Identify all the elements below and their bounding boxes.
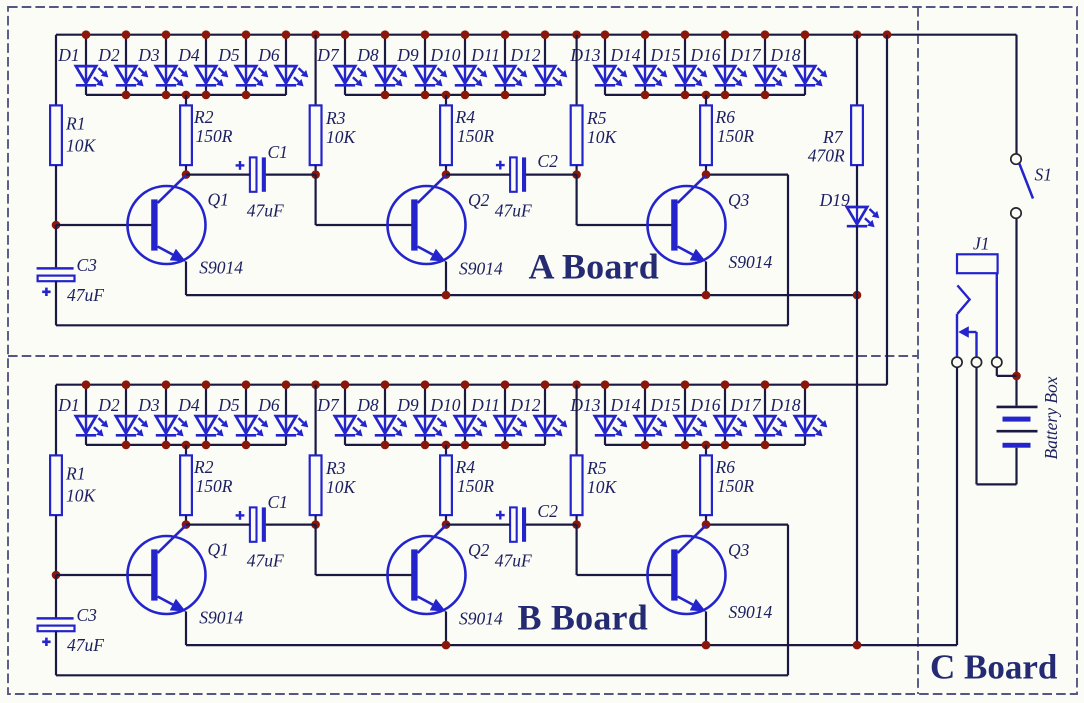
- LED D15 (A): [675, 66, 708, 86]
- svg-text:D12: D12: [509, 395, 540, 415]
- junction: top rail x=685 (A): [681, 30, 690, 39]
- transistor Q2 (A): [388, 175, 466, 264]
- junction: top rail x=765 (A): [761, 30, 770, 39]
- wire: R5 to top rail (A): [575, 35, 577, 106]
- svg-text:A Board: A Board: [529, 247, 659, 287]
- transistor Q1 (A): [128, 175, 206, 264]
- wire: D9 anode/cathode drop (B): [424, 385, 426, 445]
- wire: D7 anode/cathode drop (B): [344, 385, 346, 445]
- LED D3 (B): [156, 416, 189, 436]
- junction: top rail x=206 (B): [202, 380, 211, 389]
- svg-text:D11: D11: [470, 45, 500, 65]
- wire: R1 to base node (A): [55, 165, 57, 225]
- junction: cathode rail x=166 (A): [162, 91, 171, 100]
- junction: top rail x=805 (A): [801, 30, 810, 39]
- junction: R3 coupling node (A): [311, 170, 320, 179]
- junction: cathode rail x=645 (B): [641, 441, 650, 450]
- junction: Q2 emitter (B): [442, 641, 451, 650]
- junction: top rail x=685 (B): [681, 380, 690, 389]
- wire: emitter/ground line (B): [186, 644, 957, 646]
- LED D7 (A): [335, 66, 368, 86]
- LED D9 (A): [415, 66, 448, 86]
- svg-text:D15: D15: [649, 45, 680, 65]
- LED D2 (A): [116, 66, 149, 86]
- wire: D8 anode/cathode drop (B): [384, 385, 386, 445]
- wire: D2 anode/cathode drop (B): [125, 385, 127, 445]
- wire: R7 to D19: [856, 165, 858, 207]
- resistor R5 (A): [571, 105, 583, 165]
- svg-text:R2: R2: [193, 457, 214, 477]
- jack J1 terminal 2: [971, 357, 981, 367]
- wire: emitter/ground line (A): [186, 294, 857, 296]
- junction: cathode rail x=385 (A): [381, 91, 390, 100]
- junction: cathode rail x=685 (B): [681, 441, 690, 450]
- wire: D5 anode/cathode drop (B): [245, 385, 247, 445]
- svg-text:47uF: 47uF: [67, 635, 104, 655]
- wire: D6 anode/cathode drop (A): [285, 35, 287, 95]
- wire: R4 top stub (B): [445, 445, 447, 456]
- junction: cathode rail x=465 (B): [461, 441, 470, 450]
- junction: top rail x=246 (B): [242, 380, 251, 389]
- wire: D7 anode/cathode drop (A): [344, 35, 346, 95]
- junction: cathode rail x=505 (B): [501, 441, 510, 450]
- svg-text:47uF: 47uF: [247, 551, 284, 571]
- svg-text:D18: D18: [769, 395, 800, 415]
- wire: Q3 emitter drop (A): [705, 262, 707, 296]
- junction: Q3 collector node (A): [702, 170, 711, 179]
- svg-text:R1: R1: [65, 114, 85, 134]
- transistor Q3 (B): [648, 525, 726, 614]
- junction: top rail x=345 (A): [341, 30, 350, 39]
- junction: cathode rail x=706 (B): [702, 441, 711, 450]
- switch S1: [1011, 154, 1021, 164]
- jack J1 terminal 1: [952, 357, 962, 367]
- wire: R5 to Q3 base (B): [577, 525, 672, 575]
- svg-text:D1: D1: [57, 45, 79, 65]
- wire: R1 to top rail (B): [55, 385, 57, 456]
- svg-text:10K: 10K: [66, 486, 97, 506]
- LED D2 (B): [116, 416, 149, 436]
- wire: cathode rail D1-D6 (B): [86, 444, 286, 446]
- svg-text:Q1: Q1: [208, 540, 229, 560]
- LED D1 (A): [76, 66, 109, 86]
- capacitor C3 (A): [37, 268, 75, 296]
- wire: Q2 emitter drop (B): [445, 612, 447, 646]
- wire: R1 to base node (B): [55, 515, 57, 575]
- wire: D1 anode/cathode drop (B): [85, 385, 87, 445]
- wire: R2 top stub (B): [185, 445, 187, 456]
- junction: cathode rail x=186 (B): [182, 441, 191, 450]
- svg-text:D9: D9: [396, 395, 419, 415]
- capacitor C3 (B): [37, 618, 75, 646]
- junction: cathode rail x=246 (A): [242, 91, 251, 100]
- wire: D5 anode/cathode drop (A): [245, 35, 247, 95]
- junction: top rail x=315.6 (A): [311, 30, 320, 39]
- junction: cathode rail x=465 (A): [461, 91, 470, 100]
- junction: top rail x=425 (A): [421, 30, 430, 39]
- wire: Q3 emitter drop (B): [705, 612, 707, 646]
- wire: C3 feedback bottom rail (B): [56, 525, 788, 676]
- resistor R4 (B): [440, 455, 452, 515]
- svg-text:R6: R6: [715, 107, 736, 127]
- capacitor C2 (A): [496, 157, 526, 191]
- svg-text:S9014: S9014: [459, 259, 503, 279]
- wire: D10 anode/cathode drop (A): [464, 35, 466, 95]
- junction: Q2 collector node (B): [442, 520, 451, 529]
- resistor R4 (A): [440, 105, 452, 165]
- wire: C2 to R5 (A): [526, 174, 577, 176]
- wire: J1 terminal3 to battery +: [997, 367, 1017, 376]
- wire: D18 anode/cathode drop (A): [804, 35, 806, 95]
- svg-text:150R: 150R: [717, 126, 754, 146]
- border: C board divider (vertical dashed): [917, 7, 919, 694]
- wire: base node to C3 (A): [55, 225, 57, 269]
- LED D5 (B): [236, 416, 268, 436]
- capacitor C2 (B): [496, 507, 526, 541]
- junction: R3 coupling node (B): [311, 520, 320, 529]
- transistor Q3 (A): [648, 175, 726, 264]
- junction: top rail x=206 (A): [202, 30, 211, 39]
- junction: top rail x=86 (B): [82, 380, 91, 389]
- wire: cathode rail D1-D6 (A): [86, 94, 286, 96]
- LED D11 (A): [495, 66, 528, 86]
- wire: D10 anode/cathode drop (B): [464, 385, 466, 445]
- junction: cathode rail x=126 (A): [122, 91, 131, 100]
- svg-text:D17: D17: [729, 395, 761, 415]
- LED D4 (B): [196, 416, 229, 436]
- resistor R1 (B): [50, 455, 62, 515]
- wire: D11 anode/cathode drop (B): [504, 385, 506, 445]
- junction: top rail x=765 (B): [761, 380, 770, 389]
- wire: Q2 collector to C2 (A): [446, 174, 510, 176]
- resistor R2 (B): [180, 455, 192, 515]
- junction: top rail x=425 (B): [421, 380, 430, 389]
- junction: top rail x=166 (B): [162, 380, 171, 389]
- svg-text:S9014: S9014: [199, 258, 243, 278]
- svg-text:10K: 10K: [326, 127, 357, 147]
- svg-text:B Board: B Board: [518, 598, 648, 638]
- LED D18 (A): [795, 66, 828, 86]
- junction: R5 coupling node (A): [572, 170, 581, 179]
- svg-text:47uF: 47uF: [495, 201, 532, 221]
- wire: Q2 emitter drop (A): [445, 262, 447, 296]
- junction: top rail x=645 (A): [641, 30, 650, 39]
- svg-text:R5: R5: [586, 108, 607, 128]
- junction: cathode rail x=765 (B): [761, 441, 770, 450]
- svg-text:J1: J1: [973, 234, 990, 254]
- svg-text:D13: D13: [569, 395, 600, 415]
- wire: Q1 collector to C1 (B): [186, 523, 250, 525]
- svg-text:R5: R5: [586, 458, 607, 478]
- svg-text:D16: D16: [689, 395, 720, 415]
- wire: D3 anode/cathode drop (B): [165, 385, 167, 445]
- junction: top rail x=246 (A): [242, 30, 251, 39]
- LED D3 (A): [156, 66, 189, 86]
- LED D11 (B): [495, 416, 528, 436]
- jack J1 sleeve wire: [996, 273, 998, 357]
- wire: D12 anode/cathode drop (A): [544, 35, 546, 95]
- svg-text:Q2: Q2: [468, 190, 490, 210]
- LED D10 (B): [455, 416, 488, 436]
- wire: D4 anode/cathode drop (B): [205, 385, 207, 445]
- junction: Q1 base node (A): [52, 221, 61, 230]
- border: A/B board divider (horizontal dashed): [8, 355, 918, 357]
- wire: D12 anode/cathode drop (B): [544, 385, 546, 445]
- junction: Q1 base node (B): [52, 571, 61, 580]
- junction: Q1 collector node (A): [182, 170, 191, 179]
- svg-text:150R: 150R: [457, 476, 494, 496]
- capacitor C1 (A): [236, 157, 266, 191]
- wire: top rail to S1: [1015, 35, 1017, 154]
- junction: cathode rail x=645 (A): [641, 91, 650, 100]
- LED D19: [847, 207, 880, 227]
- wire: Q1 base (A): [56, 224, 152, 226]
- LED D18 (B): [795, 416, 828, 436]
- junction: top rail x=286 (B): [282, 380, 291, 389]
- svg-text:S9014: S9014: [729, 602, 773, 622]
- svg-text:D5: D5: [217, 395, 240, 415]
- wire: Q1 collector to C1 (A): [186, 174, 250, 176]
- junction: top rail x=645 (B): [641, 380, 650, 389]
- wire: C3 to bottom rail (A): [55, 281, 57, 325]
- wire: D2 anode/cathode drop (A): [125, 35, 127, 95]
- junction: cathode rail x=186 (A): [182, 91, 191, 100]
- LED D6 (A): [276, 66, 309, 86]
- LED D4 (A): [196, 66, 229, 86]
- wire: +V top rail (A board): [56, 34, 1017, 36]
- junction: top rail x=315.6 (B): [311, 380, 320, 389]
- wire: R4 top stub (A): [445, 95, 447, 106]
- junction: Q2 collector node (A): [442, 170, 451, 179]
- svg-text:D7: D7: [316, 395, 340, 415]
- junction: cathode rail x=206 (B): [202, 441, 211, 450]
- wire: cathode rail D7-D12 (B): [345, 444, 545, 446]
- wire: D19 to ground line: [856, 226, 858, 295]
- wire: R6 bottom stub (A): [705, 165, 707, 175]
- svg-text:D2: D2: [97, 45, 120, 65]
- LED D5 (A): [236, 66, 268, 86]
- resistor R6 (B): [700, 455, 712, 515]
- wire: R5 bottom stub (B): [575, 515, 577, 525]
- wire: R1 to top rail (A): [55, 35, 57, 106]
- LED D17 (B): [755, 416, 788, 436]
- LED D15 (B): [675, 416, 708, 436]
- svg-text:47uF: 47uF: [495, 551, 532, 571]
- svg-text:Q1: Q1: [208, 190, 229, 210]
- wire: +V top rail (B board): [56, 384, 887, 386]
- wire: Q2 collector to C2 (B): [446, 523, 510, 525]
- wire: D15 anode/cathode drop (A): [684, 35, 686, 95]
- LED D13 (B): [595, 416, 628, 436]
- svg-text:S9014: S9014: [199, 608, 243, 628]
- wire: R3 bottom stub (B): [315, 515, 317, 525]
- junction: top rail x=857 (A): [853, 30, 862, 39]
- wire: ground link A to B board: [856, 295, 858, 645]
- wire: R4 bottom stub (A): [445, 165, 447, 175]
- wire: R2 top stub (A): [185, 95, 187, 106]
- wire: R2 bottom stub (B): [185, 515, 187, 525]
- svg-text:D14: D14: [609, 45, 640, 65]
- wire: D16 anode/cathode drop (A): [724, 35, 726, 95]
- svg-text:10K: 10K: [326, 477, 357, 497]
- wire: D14 anode/cathode drop (B): [644, 385, 646, 445]
- svg-text:D12: D12: [509, 45, 540, 65]
- wire: R5 to Q3 base (A): [577, 175, 672, 225]
- junction: Q2 emitter (A): [442, 291, 451, 300]
- svg-text:D17: D17: [729, 45, 761, 65]
- transistor Q1 (B): [128, 525, 206, 614]
- svg-text:Q3: Q3: [728, 190, 750, 210]
- svg-text:47uF: 47uF: [247, 201, 284, 221]
- LED D16 (A): [715, 66, 748, 86]
- svg-text:C1: C1: [268, 492, 288, 512]
- junction: top rail x=86 (A): [82, 30, 91, 39]
- svg-text:Q3: Q3: [728, 540, 750, 560]
- svg-text:D14: D14: [609, 395, 640, 415]
- svg-text:150R: 150R: [196, 126, 233, 146]
- jack J1 terminal 3: [992, 357, 1002, 367]
- wire: R3 to top rail (A): [315, 35, 317, 106]
- wire: R3 bottom stub (A): [315, 165, 317, 175]
- junction: top rail x=286 (A): [282, 30, 291, 39]
- battery BT1: [997, 406, 1038, 409]
- svg-text:S9014: S9014: [459, 609, 503, 629]
- LED D9 (B): [415, 416, 448, 436]
- junction: ground line x=857 (B): [853, 641, 862, 650]
- LED D10 (A): [455, 66, 488, 86]
- svg-text:R4: R4: [455, 107, 476, 127]
- LED D16 (B): [715, 416, 748, 436]
- junction: cathode rail x=706 (A): [702, 91, 711, 100]
- wire: D8 anode/cathode drop (A): [384, 35, 386, 95]
- wire: R6 top stub (B): [705, 445, 707, 456]
- svg-text:R6: R6: [715, 457, 736, 477]
- svg-text:D15: D15: [649, 395, 680, 415]
- wire: D11 anode/cathode drop (A): [504, 35, 506, 95]
- svg-text:C Board: C Board: [930, 648, 1058, 687]
- svg-text:Q2: Q2: [468, 540, 490, 560]
- junction: cathode rail x=166 (B): [162, 441, 171, 450]
- LED D7 (B): [335, 416, 368, 436]
- wire: D17 anode/cathode drop (B): [764, 385, 766, 445]
- jack J1 tip contact: [957, 285, 969, 313]
- LED D1 (B): [76, 416, 109, 436]
- resistor R3 (B): [310, 455, 322, 515]
- junction: top rail x=345 (B): [341, 380, 350, 389]
- junction: battery + node: [1012, 372, 1021, 381]
- junction: top rail x=505 (B): [501, 380, 510, 389]
- svg-text:D16: D16: [689, 45, 720, 65]
- jack J1 body: [957, 254, 998, 273]
- junction: top rail x=465 (B): [461, 380, 470, 389]
- svg-text:150R: 150R: [457, 126, 494, 146]
- svg-text:D3: D3: [137, 395, 160, 415]
- wire: C1 to R3 (B): [266, 523, 316, 525]
- wire: S1 to battery +: [1015, 218, 1017, 405]
- junction: top rail x=465 (A): [461, 30, 470, 39]
- LED D6 (B): [276, 416, 309, 436]
- wire: base node to C3 (B): [55, 575, 57, 619]
- svg-text:D10: D10: [429, 45, 460, 65]
- junction: top rail x=887 (A): [883, 30, 892, 39]
- LED D8 (B): [375, 416, 408, 436]
- wire: Q1 emitter drop (B): [185, 612, 187, 646]
- wire: D1 anode/cathode drop (A): [85, 35, 87, 95]
- svg-text:D11: D11: [470, 395, 500, 415]
- svg-text:C1: C1: [268, 142, 288, 162]
- junction: Q3 emitter (B): [702, 641, 711, 650]
- wire: D18 anode/cathode drop (B): [804, 385, 806, 445]
- svg-text:150R: 150R: [717, 476, 754, 496]
- LED D14 (B): [635, 416, 668, 436]
- junction: Q3 emitter (A): [702, 291, 711, 300]
- junction: cathode rail x=206 (A): [202, 91, 211, 100]
- wire: D16 anode/cathode drop (B): [724, 385, 726, 445]
- wire: D15 anode/cathode drop (B): [684, 385, 686, 445]
- svg-text:D7: D7: [316, 45, 340, 65]
- wire: R6 top stub (A): [705, 95, 707, 106]
- wire: Q1 base (B): [56, 574, 152, 576]
- svg-text:R4: R4: [455, 457, 476, 477]
- svg-text:10K: 10K: [66, 136, 97, 156]
- svg-text:D6: D6: [257, 395, 280, 415]
- junction: top rail x=126 (B): [122, 380, 131, 389]
- resistor R5 (B): [571, 455, 583, 515]
- junction: R5 coupling node (B): [572, 520, 581, 529]
- capacitor C1 (B): [236, 507, 266, 541]
- svg-text:R1: R1: [65, 464, 85, 484]
- wire: +V link to B board: [886, 35, 888, 385]
- svg-text:Battery Box: Battery Box: [1041, 376, 1061, 459]
- wire: R7 to top rail: [856, 35, 858, 106]
- jack J1 NC contact arrow: [958, 326, 969, 337]
- svg-text:R2: R2: [193, 107, 214, 127]
- junction: top rail x=725 (A): [721, 30, 730, 39]
- wire: cathode rail D13-D18 (A): [605, 94, 805, 96]
- junction: cathode rail x=385 (B): [381, 441, 390, 450]
- LED D14 (A): [635, 66, 668, 86]
- junction: cathode rail x=446 (A): [442, 91, 451, 100]
- junction: top rail x=166 (A): [162, 30, 171, 39]
- wire: D3 anode/cathode drop (A): [165, 35, 167, 95]
- wire: cathode rail D13-D18 (B): [605, 444, 805, 446]
- wire: R6 bottom stub (B): [705, 515, 707, 525]
- junction: cathode rail x=446 (B): [442, 441, 451, 450]
- LED D8 (A): [375, 66, 408, 86]
- wire: D17 anode/cathode drop (A): [764, 35, 766, 95]
- junction: top rail x=576.6 (B): [572, 380, 581, 389]
- svg-text:C2: C2: [537, 501, 558, 521]
- junction: top rail x=545 (A): [541, 30, 550, 39]
- junction: ground line x=857 (A): [853, 291, 862, 300]
- junction: cathode rail x=765 (A): [761, 91, 770, 100]
- resistor R7: [851, 105, 863, 165]
- svg-text:C2: C2: [537, 151, 558, 171]
- wire: D4 anode/cathode drop (A): [205, 35, 207, 95]
- svg-text:D3: D3: [137, 45, 160, 65]
- LED D12 (B): [535, 416, 568, 436]
- junction: Q1 collector node (B): [182, 520, 191, 529]
- wire: R4 bottom stub (B): [445, 515, 447, 525]
- svg-text:R7: R7: [822, 127, 844, 147]
- junction: cathode rail x=725 (A): [721, 91, 730, 100]
- junction: top rail x=605 (B): [601, 380, 610, 389]
- svg-text:D4: D4: [177, 45, 200, 65]
- resistor R6 (A): [700, 105, 712, 165]
- wire: R5 to top rail (B): [575, 385, 577, 456]
- junction: cathode rail x=505 (A): [501, 91, 510, 100]
- wire: R2 bottom stub (A): [185, 165, 187, 175]
